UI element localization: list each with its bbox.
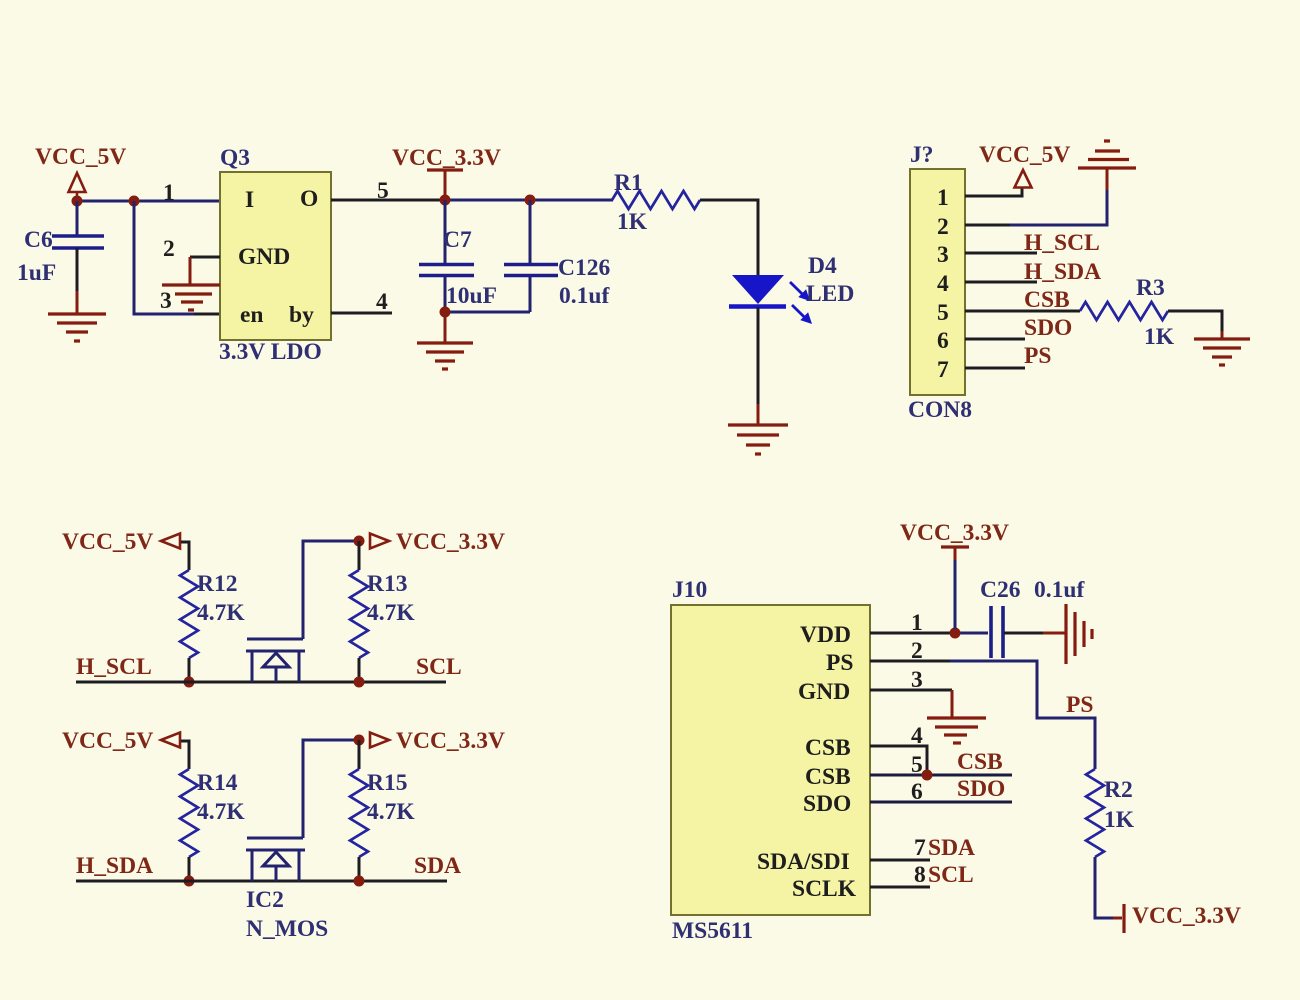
svg-text:en: en xyxy=(240,302,264,328)
svg-text:VCC_5V: VCC_5V xyxy=(62,728,153,754)
wire R14 bottom xyxy=(188,857,191,881)
svg-text:4.7K: 4.7K xyxy=(367,799,415,825)
svg-text:H_SCL: H_SCL xyxy=(1024,230,1100,256)
power bar VCC_3.3V xyxy=(427,170,463,200)
wire by pin 4 stub xyxy=(331,312,392,315)
resistor R13 xyxy=(350,541,368,682)
svg-text:CSB: CSB xyxy=(957,749,1003,775)
power port VCC_5V (CON8) xyxy=(1015,170,1032,188)
svg-text:by: by xyxy=(289,302,314,328)
svg-text:C7: C7 xyxy=(443,227,472,253)
power port VCC_3.3V right triangle (SCL) xyxy=(370,534,389,549)
power port VCC_5V left triangle (SDA) xyxy=(161,733,180,748)
power bar VCC_3.3V (R2) xyxy=(1113,904,1124,933)
svg-text:PS: PS xyxy=(826,650,853,676)
resistor R2 xyxy=(1086,769,1104,857)
node junction cap bottom xyxy=(440,307,451,318)
resistor R12 xyxy=(180,570,198,658)
svg-text:CSB: CSB xyxy=(805,735,851,761)
svg-text:7: 7 xyxy=(914,835,926,861)
node junction R12/H_SCL xyxy=(184,677,195,688)
svg-text:VCC_3.3V: VCC_3.3V xyxy=(900,520,1009,546)
svg-text:GND: GND xyxy=(238,244,290,270)
wire pin4 CSB xyxy=(870,746,927,775)
svg-text:H_SDA: H_SDA xyxy=(76,853,153,879)
ground under J10 pin3 xyxy=(927,718,986,743)
svg-text:SDO: SDO xyxy=(957,776,1005,802)
wire pin4 stub xyxy=(965,281,1037,284)
resistor R14 xyxy=(180,769,198,857)
capacitor C7 xyxy=(419,200,474,312)
svg-text:R12: R12 xyxy=(197,571,237,597)
capacitor C126 xyxy=(504,200,558,312)
svg-text:1: 1 xyxy=(937,185,949,211)
wire R2 to VCC_3.3V port xyxy=(1095,857,1113,918)
ground flipped (CON8 top) xyxy=(1078,141,1136,168)
svg-text:C126: C126 xyxy=(558,255,610,281)
connector J? box xyxy=(910,169,965,395)
svg-text:1K: 1K xyxy=(1144,324,1175,350)
wire GND pin stub xyxy=(190,256,220,259)
ground under R3 xyxy=(1194,339,1250,365)
svg-text:SDA: SDA xyxy=(928,835,975,861)
ground under LED xyxy=(728,425,788,454)
power port VCC_3.3V right triangle (SDA) xyxy=(370,733,389,748)
node junction VDD xyxy=(950,628,961,639)
wire pin1 VDD xyxy=(870,632,955,635)
LED D4 xyxy=(729,275,812,324)
svg-text:SDA/SDI: SDA/SDI xyxy=(757,849,850,875)
svg-text:LED: LED xyxy=(806,281,854,307)
svg-text:SCLK: SCLK xyxy=(792,876,857,902)
svg-text:VCC_3.3V: VCC_3.3V xyxy=(396,728,505,754)
svg-text:VCC_3.3V: VCC_3.3V xyxy=(396,529,505,555)
svg-text:VCC_5V: VCC_5V xyxy=(35,144,126,170)
svg-text:VCC_3.3V: VCC_3.3V xyxy=(392,145,501,171)
power bar VCC_3.3V (J10) xyxy=(941,547,969,629)
svg-text:2: 2 xyxy=(937,214,949,240)
resistor R15 xyxy=(350,740,368,881)
svg-text:VCC_5V: VCC_5V xyxy=(979,142,1070,168)
wire H_SCL xyxy=(76,681,446,684)
svg-text:3.3V LDO: 3.3V LDO xyxy=(219,339,322,365)
svg-text:R1: R1 xyxy=(614,170,643,196)
wire LED cathode down xyxy=(757,307,760,404)
svg-text:SDO: SDO xyxy=(1024,315,1072,341)
wire pin2 PS net xyxy=(870,660,950,663)
wire GND drop maroon xyxy=(189,257,192,285)
wire pin6 stub xyxy=(965,338,1025,341)
ground under C7 xyxy=(417,343,473,369)
svg-text:VCC_3.3V: VCC_3.3V xyxy=(1132,903,1241,929)
svg-text:3: 3 xyxy=(937,242,949,268)
svg-text:N_MOS: N_MOS xyxy=(246,916,328,942)
svg-text:1K: 1K xyxy=(617,209,648,235)
svg-text:PS: PS xyxy=(1066,692,1093,718)
wire pin7 stub xyxy=(965,367,1025,370)
svg-text:J10: J10 xyxy=(672,577,707,603)
svg-text:8: 8 xyxy=(914,862,926,888)
svg-text:6: 6 xyxy=(937,328,949,354)
wire down to ground xyxy=(444,312,447,343)
svg-text:SDA: SDA xyxy=(414,853,461,879)
wire pin8 SCL xyxy=(870,886,930,889)
regulator U Q3 box xyxy=(220,172,331,340)
svg-text:I: I xyxy=(245,187,254,213)
svg-text:PS: PS xyxy=(1024,343,1051,369)
svg-text:SDO: SDO xyxy=(803,791,851,817)
svg-text:IC2: IC2 xyxy=(246,887,284,913)
svg-text:MS5611: MS5611 xyxy=(672,918,753,944)
svg-text:R2: R2 xyxy=(1104,777,1133,803)
resistor R3 xyxy=(1080,302,1168,320)
capacitor C26 xyxy=(991,606,1066,658)
wire en stub black xyxy=(194,313,220,316)
svg-text:4: 4 xyxy=(937,271,949,297)
svg-text:VDD: VDD xyxy=(800,622,851,648)
node junction VCC_3.3V / C7 xyxy=(440,195,451,206)
node junction R14/H_SDA xyxy=(184,876,195,887)
ground under C6 xyxy=(48,314,106,341)
svg-text:CSB: CSB xyxy=(805,764,851,790)
wire R1 to LED xyxy=(700,200,758,276)
wire enable branch down to en pin xyxy=(134,201,194,314)
wire VCC_5V horizontal to Q3 pin 1 xyxy=(77,200,220,203)
svg-text:0.1uf: 0.1uf xyxy=(1034,577,1085,603)
svg-text:CON8: CON8 xyxy=(908,397,972,423)
svg-text:7: 7 xyxy=(937,357,949,383)
svg-text:10uF: 10uF xyxy=(446,283,497,309)
ground rotated (C26) xyxy=(1066,604,1092,664)
resistor R1 xyxy=(612,191,700,209)
svg-text:1uF: 1uF xyxy=(17,260,56,286)
transistor Q (SCL mosfet) xyxy=(246,639,305,682)
transistor IC2 (SDA mosfet) xyxy=(246,838,305,881)
svg-text:R13: R13 xyxy=(367,571,407,597)
svg-text:SCL: SCL xyxy=(416,654,462,680)
svg-text:VCC_5V: VCC_5V xyxy=(62,529,153,555)
wire pin5 CSB xyxy=(870,774,1012,777)
svg-text:O: O xyxy=(300,186,318,212)
wire port to R14 xyxy=(181,741,189,769)
svg-text:0.1uf: 0.1uf xyxy=(559,283,610,309)
svg-text:4.7K: 4.7K xyxy=(197,600,245,626)
wire output pin 5 xyxy=(331,199,441,202)
sensor J10 box xyxy=(671,605,870,915)
wire gate to top rail (SCL) xyxy=(303,541,359,639)
svg-text:1: 1 xyxy=(163,180,175,206)
svg-text:2: 2 xyxy=(163,236,175,262)
wire pin3 GND xyxy=(870,689,952,692)
wire pin7 SDA xyxy=(870,859,930,862)
node junction R15/SDA xyxy=(354,876,365,887)
svg-text:5: 5 xyxy=(937,300,949,326)
svg-text:C6: C6 xyxy=(24,227,53,253)
node junction at VCC_5V xyxy=(72,196,83,207)
node junction R13/SCL xyxy=(354,677,365,688)
svg-text:SCL: SCL xyxy=(928,862,974,888)
node junction at enable branch xyxy=(129,196,140,207)
power port VCC_5V (triangle) xyxy=(69,173,86,200)
ground under Q3 pin 2 xyxy=(162,285,220,310)
wire H_SDA xyxy=(76,880,447,883)
svg-text:R15: R15 xyxy=(367,770,407,796)
svg-text:5: 5 xyxy=(377,178,389,204)
svg-text:H_SDA: H_SDA xyxy=(1024,259,1101,285)
wire port to R12 xyxy=(181,542,189,570)
node junction C126 xyxy=(525,195,536,206)
wire pin6 SDO xyxy=(870,801,1012,804)
svg-text:4.7K: 4.7K xyxy=(367,600,415,626)
node junction top rail (SDA) xyxy=(354,735,365,746)
wire pin3 stub xyxy=(965,252,1037,255)
wire R3 to ground xyxy=(1168,311,1222,331)
wire pin2 to ground xyxy=(965,224,1010,227)
svg-text:3: 3 xyxy=(160,288,172,314)
node junction top rail (SCL) xyxy=(354,536,365,547)
wire pin5 to R3 xyxy=(965,310,1080,313)
wire R12 bottom xyxy=(188,658,191,682)
capacitor C6 xyxy=(52,201,104,314)
wire gate to top rail (SDA) xyxy=(303,740,359,838)
power port VCC_5V left triangle (SCL) xyxy=(161,534,180,549)
svg-text:1K: 1K xyxy=(1104,807,1135,833)
svg-text:4: 4 xyxy=(376,289,388,315)
svg-text:J?: J? xyxy=(910,142,934,168)
svg-text:Q3: Q3 xyxy=(220,145,250,171)
svg-text:4.7K: 4.7K xyxy=(197,799,245,825)
node junction CSB xyxy=(922,770,933,781)
svg-text:R14: R14 xyxy=(197,770,238,796)
svg-text:D4: D4 xyxy=(808,253,837,279)
wire joining cap bottoms xyxy=(445,311,530,314)
wire pin1 to VCC_5V xyxy=(965,188,1022,196)
svg-text:R3: R3 xyxy=(1136,275,1165,301)
svg-text:CSB: CSB xyxy=(1024,287,1070,313)
svg-text:C26: C26 xyxy=(980,577,1021,603)
svg-text:H_SCL: H_SCL xyxy=(76,654,152,680)
svg-text:GND: GND xyxy=(798,679,850,705)
